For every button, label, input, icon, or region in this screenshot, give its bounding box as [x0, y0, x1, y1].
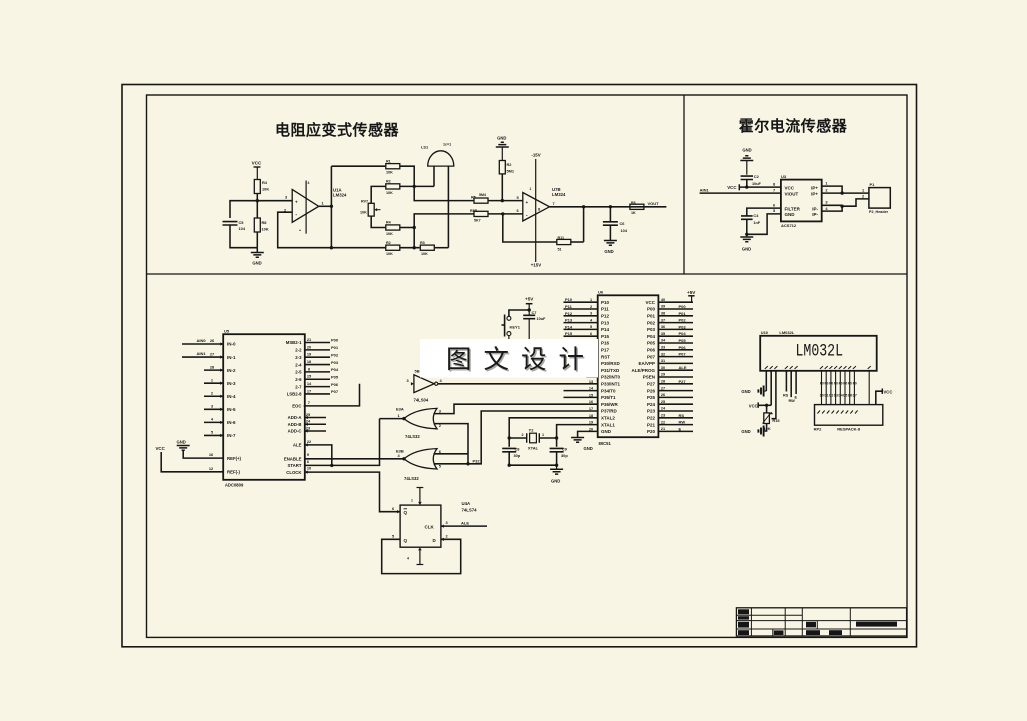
capacitor C6 — [603, 207, 628, 241]
op-amp U7B — [523, 159, 566, 262]
node hall in junction — [840, 205, 843, 208]
svg-text:+5V: +5V — [525, 297, 534, 302]
svg-text:2: 2 — [590, 305, 592, 309]
U4A clear arrow — [407, 547, 423, 564]
svg-text:R1: R1 — [386, 159, 391, 163]
wire C2 to node — [746, 180, 748, 188]
wire R5A to R3 — [400, 247, 420, 249]
U10 VSS pin wire — [765, 371, 767, 391]
svg-text:电阻应变式传感器: 电阻应变式传感器 — [275, 121, 400, 139]
svg-text:CLOCK: CLOCK — [286, 470, 302, 475]
svg-text:10: 10 — [307, 466, 311, 471]
resistor R2A — [386, 180, 400, 195]
U6 P1 port wires and labels — [564, 297, 598, 343]
node P32 junction — [466, 462, 469, 465]
node R11 junction — [501, 212, 504, 215]
title hall-current section — [739, 117, 848, 135]
svg-text:74LS32: 74LS32 — [405, 434, 420, 439]
svg-text:LSB2-8: LSB2-8 — [287, 392, 302, 397]
resistor R4 — [254, 180, 269, 194]
svg-text:P06: P06 — [331, 382, 339, 387]
svg-text:RST: RST — [601, 354, 610, 359]
svg-text:RW: RW — [679, 420, 686, 425]
wire inverter out to P33 — [438, 383, 598, 385]
svg-text:P02: P02 — [679, 318, 687, 323]
svg-text:ENABLE: ENABLE — [284, 457, 302, 462]
wire U3 pin4 — [822, 205, 842, 211]
svg-text:VCC: VCC — [252, 161, 262, 166]
ground mcu — [571, 438, 593, 452]
U4A CLK pin — [425, 520, 488, 530]
resistor R8 — [254, 201, 269, 248]
svg-text:1: 1 — [590, 298, 592, 302]
svg-text:IP-: IP- — [812, 206, 818, 211]
svg-text:D6: D6 — [848, 394, 852, 398]
svg-text:P34/T0: P34/T0 — [601, 388, 616, 393]
U6 pin name texts — [601, 300, 656, 434]
svg-text:P02: P02 — [331, 352, 339, 357]
power VCC adc — [156, 446, 224, 472]
svg-text:P0: P0 — [853, 381, 857, 385]
wire bottom to R5A — [331, 247, 385, 249]
svg-text:P24: P24 — [647, 402, 656, 407]
svg-text:LM032L: LM032L — [796, 342, 844, 362]
node B junction — [413, 185, 416, 188]
wire node to op-amp pin3 — [257, 195, 292, 201]
svg-text:25: 25 — [661, 400, 665, 404]
wire LS1 right leg — [447, 166, 449, 248]
net label ALE at CLK — [461, 521, 469, 526]
svg-text:D4: D4 — [839, 394, 843, 398]
svg-text:17: 17 — [589, 407, 593, 411]
wire C5 to gnd rail — [230, 225, 257, 248]
svg-text:E: E — [679, 426, 682, 431]
svg-text:39: 39 — [661, 305, 665, 309]
net label P27 mcu — [679, 379, 687, 384]
svg-text:31: 31 — [661, 359, 665, 363]
svg-text:6: 6 — [590, 332, 592, 336]
svg-text:P05: P05 — [647, 341, 656, 346]
net labels lcd data — [820, 381, 857, 397]
svg-text:P04: P04 — [647, 334, 656, 339]
svg-text:P20: P20 — [647, 429, 656, 434]
svg-text:IN-7: IN-7 — [227, 433, 236, 438]
U10 RW pin wire — [789, 371, 796, 403]
svg-text:GND: GND — [177, 439, 186, 444]
svg-text:IN-0: IN-0 — [227, 342, 236, 347]
power VCC lcd — [749, 402, 771, 408]
svg-text:VCC: VCC — [884, 390, 893, 395]
net label RS mcu — [679, 413, 685, 418]
border outer frame — [122, 85, 917, 647]
svg-text:10K: 10K — [386, 171, 393, 175]
capacitor C2 — [741, 174, 762, 186]
or-gate E3A 74LS32 — [396, 406, 442, 439]
node ALE-START junction — [330, 464, 333, 467]
svg-text:IN-6: IN-6 — [227, 420, 236, 425]
wire R2A-left to RV7 — [371, 186, 386, 203]
svg-text:VCC: VCC — [727, 185, 737, 190]
svg-text:P01: P01 — [647, 314, 656, 319]
ADC address pins ADD-A/B/C — [288, 412, 326, 434]
svg-text:P12: P12 — [601, 314, 610, 319]
svg-text:P00: P00 — [331, 338, 339, 343]
power +15V — [531, 263, 541, 268]
ground lcd r15 — [741, 426, 763, 437]
power +5V key — [525, 297, 534, 316]
wire P37 to gates — [468, 411, 598, 464]
svg-text:C4: C4 — [753, 213, 759, 218]
svg-text:P03: P03 — [679, 324, 687, 329]
svg-text:XTAL1: XTAL1 — [601, 422, 615, 427]
connector P1 — [862, 182, 890, 214]
svg-text:VCC: VCC — [749, 403, 758, 408]
ground above R2 — [496, 136, 509, 161]
svg-text:U4A: U4A — [462, 501, 471, 506]
wire top to R1 — [331, 165, 385, 167]
wire C4 to gnd node — [746, 219, 748, 234]
wire R2A to node B — [400, 185, 434, 187]
resistor R2 — [499, 161, 515, 174]
svg-text:C8: C8 — [515, 446, 521, 451]
title block — [736, 608, 906, 636]
svg-text:RESPACK-8: RESPACK-8 — [837, 427, 861, 432]
svg-text:2-4: 2-4 — [295, 362, 302, 367]
svg-text:20: 20 — [307, 344, 311, 349]
button KEY1 — [502, 315, 521, 340]
ground below R8 — [251, 248, 264, 266]
svg-text:2-2: 2-2 — [295, 348, 302, 353]
section divider vertical — [683, 95, 685, 274]
or-gate E3B 74LS32 — [396, 449, 442, 481]
node hall vcc junction — [745, 185, 748, 188]
svg-text:GND: GND — [601, 429, 612, 434]
svg-text:2-5: 2-5 — [295, 370, 302, 375]
svg-text:LS1: LS1 — [421, 145, 429, 150]
svg-text:C7: C7 — [532, 310, 537, 315]
chip U3 ACS712 — [781, 174, 822, 228]
wire lower bus — [414, 214, 474, 228]
svg-text:80C51: 80C51 — [599, 441, 612, 446]
svg-text:40: 40 — [661, 298, 665, 302]
svg-text:26: 26 — [661, 393, 665, 397]
svg-text:35: 35 — [661, 332, 665, 336]
wire filter to C4 — [747, 208, 781, 216]
svg-text:EA/VPP: EA/VPP — [638, 361, 655, 366]
wire op-amp U1A feedback — [278, 212, 332, 248]
ground below C6 — [604, 241, 617, 255]
svg-text:PSEN: PSEN — [643, 375, 655, 380]
svg-text:37: 37 — [661, 318, 665, 322]
svg-text:U3: U3 — [781, 174, 787, 179]
U6 P32 stub — [586, 376, 597, 378]
wire R3 to LS1 leg — [435, 247, 449, 249]
svg-text:R2: R2 — [386, 180, 391, 184]
ADC data pins 2-1..2-8 — [286, 337, 339, 397]
svg-text:P11: P11 — [601, 307, 609, 312]
wire crystal right — [539, 436, 558, 439]
svg-text:ADD-B: ADD-B — [288, 422, 302, 427]
svg-text:5B: 5B — [415, 369, 420, 374]
svg-text:29: 29 — [661, 373, 665, 377]
ground hall top — [740, 148, 753, 175]
node R2 junction — [501, 199, 504, 202]
wire output vertical — [330, 166, 332, 248]
svg-text:P07: P07 — [331, 389, 339, 394]
svg-text:LM324: LM324 — [552, 192, 566, 197]
wire R5 to pin5 — [488, 195, 523, 201]
U10 data pin wires D0-D7 — [822, 371, 870, 405]
node C junction — [413, 226, 416, 229]
resistor R5A — [386, 241, 400, 256]
svg-text:VCC: VCC — [785, 185, 795, 190]
svg-text:23: 23 — [661, 414, 665, 418]
node hall out junction — [840, 191, 843, 194]
svg-text:ADD-C: ADD-C — [288, 429, 302, 434]
svg-text:P05: P05 — [331, 374, 339, 379]
svg-text:E3A: E3A — [396, 406, 404, 411]
wire feedback R11 — [503, 207, 584, 242]
svg-text:2-7: 2-7 — [295, 384, 302, 389]
svg-text:P10: P10 — [601, 300, 610, 305]
svg-text:P32/INT0: P32/INT0 — [601, 375, 621, 380]
svg-text:ACS712: ACS712 — [781, 223, 797, 228]
svg-text:GND: GND — [741, 389, 750, 394]
svg-text:LM032L: LM032L — [779, 330, 794, 335]
svg-text:P0: P0 — [834, 381, 838, 385]
svg-text:22: 22 — [661, 420, 665, 424]
resistor R3 — [420, 241, 434, 256]
svg-text:P04: P04 — [331, 367, 339, 372]
section divider horizontal — [147, 273, 908, 275]
potentiometer RV7 — [360, 200, 381, 217]
svg-text:P06: P06 — [647, 348, 656, 353]
svg-text:R4: R4 — [262, 180, 268, 185]
svg-text:霍尔电流传感器: 霍尔电流传感器 — [739, 117, 848, 135]
node A junction — [256, 199, 259, 202]
svg-text:104: 104 — [239, 226, 246, 231]
wire vert to R5A — [413, 228, 415, 248]
svg-text:74LS04: 74LS04 — [414, 398, 429, 403]
svg-text:IP-: IP- — [812, 212, 818, 217]
svg-text:RS: RS — [783, 393, 789, 397]
svg-text:P1: P1 — [870, 182, 876, 187]
svg-text:ALE: ALE — [461, 521, 469, 526]
ADC input pins IN-0..IN-7 — [182, 338, 236, 438]
svg-text:ALE/PROG: ALE/PROG — [631, 368, 655, 373]
svg-text:10K: 10K — [262, 227, 269, 232]
wire R1 right bend — [400, 166, 414, 186]
svg-text:74LS32: 74LS32 — [404, 476, 419, 481]
net label AIN1 adc — [197, 351, 207, 356]
wire U3 pin3 — [822, 200, 842, 206]
svg-text:7: 7 — [773, 187, 775, 192]
svg-text:1: 1 — [530, 187, 532, 191]
svg-text:Q: Q — [404, 510, 408, 515]
svg-text:P25: P25 — [647, 395, 656, 400]
svg-text:R11: R11 — [558, 236, 565, 240]
svg-text:7: 7 — [308, 400, 310, 405]
svg-text:1: 1 — [542, 433, 544, 437]
svg-text:P01: P01 — [331, 345, 339, 350]
svg-text:图文设计: 图文设计 — [446, 346, 596, 374]
net label AIN0 — [197, 338, 207, 343]
svg-text:VCC: VCC — [645, 300, 655, 305]
svg-text:GND: GND — [742, 148, 751, 153]
svg-text:R6: R6 — [631, 201, 636, 205]
wire AIN1 to pin7 — [700, 192, 781, 194]
node out junction 1 — [582, 205, 585, 208]
wire step to P1 pin2 — [842, 199, 869, 206]
node out junction 2 — [609, 205, 612, 208]
svg-text:P27: P27 — [679, 379, 687, 384]
svg-text:P32: P32 — [473, 458, 481, 463]
svg-text:VOUT: VOUT — [648, 201, 660, 206]
ground crystal — [550, 465, 563, 483]
svg-text:P10: P10 — [565, 297, 573, 302]
svg-text:REF(+): REF(+) — [227, 456, 242, 461]
potentiometer R15 — [763, 405, 781, 431]
wire node B down to bus — [414, 186, 474, 200]
resistor pack RP2 box — [814, 405, 883, 432]
svg-text:GND: GND — [252, 261, 261, 266]
svg-text:Q: Q — [404, 538, 408, 543]
svg-text:5M1: 5M1 — [507, 169, 515, 174]
svg-text:Y2: Y2 — [529, 427, 535, 432]
capacitor C8 — [502, 438, 521, 465]
svg-text:3: 3 — [590, 312, 592, 316]
svg-text:ALE: ALE — [679, 365, 687, 370]
svg-text:KEY1: KEY1 — [510, 324, 521, 329]
wire R2 to bus — [501, 174, 503, 201]
svg-text:10K: 10K — [386, 252, 393, 256]
svg-text:P12: P12 — [565, 311, 573, 316]
svg-text:P03: P03 — [647, 327, 656, 332]
svg-text:IP+: IP+ — [811, 185, 818, 190]
U10 RS pin wire — [783, 371, 789, 398]
svg-text:REF(-): REF(-) — [227, 470, 240, 475]
ADC ALE pin — [293, 439, 332, 466]
svg-text:CLK: CLK — [425, 525, 435, 530]
net label ALE mcu — [679, 365, 687, 370]
capacitor C5 — [223, 220, 246, 231]
svg-text:P13: P13 — [565, 318, 573, 323]
svg-text:XTAL2: XTAL2 — [601, 416, 615, 421]
svg-text:GND: GND — [604, 249, 613, 254]
ground hall bottom — [740, 234, 753, 251]
svg-text:P0: P0 — [839, 381, 843, 385]
svg-text:R8: R8 — [262, 220, 268, 225]
svg-text:P0: P0 — [825, 381, 829, 385]
node lcd vcc junction — [765, 404, 768, 407]
svg-text:10K: 10K — [421, 252, 428, 256]
svg-text:51: 51 — [558, 248, 562, 252]
net labels P00-P07 mcu — [679, 304, 687, 357]
U6 P35 stub wire — [564, 396, 598, 398]
svg-text:U5: U5 — [224, 328, 230, 333]
net label AIN1 — [700, 187, 710, 192]
svg-text:4: 4 — [407, 557, 409, 561]
ADC CLOCK pin — [286, 466, 400, 512]
svg-text:P30/RXD: P30/RXD — [601, 361, 621, 366]
svg-text:P23: P23 — [647, 409, 656, 414]
svg-text:D3: D3 — [834, 394, 838, 398]
svg-text:5M4: 5M4 — [479, 193, 486, 197]
svg-text:LM324: LM324 — [333, 193, 347, 198]
svg-text:MSB2-1: MSB2-1 — [286, 340, 302, 345]
net label VOUT — [648, 201, 660, 206]
wire XTAL2 — [509, 418, 598, 438]
svg-text:P36/WR: P36/WR — [601, 402, 619, 407]
svg-text:VCC: VCC — [156, 446, 166, 451]
ADC START pin — [287, 419, 379, 469]
svg-text:4: 4 — [308, 181, 310, 185]
svg-text:RV7: RV7 — [361, 200, 368, 204]
svg-text:D2: D2 — [829, 394, 833, 398]
wire U3 pin1 — [822, 180, 842, 193]
svg-text:RP2: RP2 — [814, 427, 823, 432]
svg-text:C2: C2 — [754, 174, 760, 179]
svg-text:-: - — [526, 213, 528, 219]
net label P32 — [473, 458, 481, 463]
svg-text:P06: P06 — [679, 345, 687, 350]
net label E mcu — [679, 426, 682, 431]
svg-text:10uF: 10uF — [752, 182, 762, 186]
svg-text:ADD-A: ADD-A — [288, 415, 302, 420]
svg-text:27: 27 — [661, 386, 665, 390]
wire R4A to vert — [400, 227, 414, 229]
svg-text:C6: C6 — [620, 221, 626, 226]
pin number 5 — [773, 208, 776, 213]
svg-text:IN-3: IN-3 — [227, 381, 236, 386]
op-amp U1A — [284, 181, 347, 234]
svg-text:10K: 10K — [386, 232, 393, 236]
resistor R6 — [630, 201, 644, 215]
svg-text:START: START — [287, 463, 301, 468]
svg-text:P27: P27 — [647, 382, 656, 387]
ADC EOC pin — [292, 384, 359, 409]
svg-text:P14: P14 — [601, 327, 610, 332]
svg-text:D1: D1 — [824, 394, 828, 398]
U6 left pin numbers 12-20 — [589, 373, 594, 431]
svg-text:P15: P15 — [565, 331, 573, 336]
svg-text:IN-5: IN-5 — [227, 407, 236, 412]
svg-text:2-3: 2-3 — [295, 355, 302, 360]
U6 right pin wires and numbers — [658, 298, 693, 432]
svg-text:+: + — [295, 200, 298, 205]
svg-text:+15V: +15V — [531, 263, 541, 268]
ground adc ref — [177, 439, 224, 458]
svg-text:27: 27 — [210, 351, 214, 356]
wire node to C5 — [230, 201, 257, 218]
U10 VEE pin wire — [772, 371, 776, 419]
power -15V — [531, 153, 540, 158]
chip U6 89C51 box — [598, 290, 659, 446]
wire E3A input3 to P36 — [434, 404, 598, 413]
wire E3B input5 — [434, 463, 469, 465]
wire E3B input6 — [434, 453, 469, 455]
svg-text:IN-2: IN-2 — [227, 368, 236, 373]
svg-text:P15: P15 — [601, 334, 610, 339]
power VCC — [252, 161, 262, 180]
U10 E pin wire — [795, 371, 798, 400]
border inner frame — [147, 95, 908, 637]
pin number 6 — [773, 202, 776, 207]
chip U5 ADC0809 box — [223, 328, 305, 487]
svg-text:P14: P14 — [565, 324, 573, 329]
ground lcd vss — [741, 386, 766, 397]
flip-flop U4A 74LS74 box — [400, 501, 477, 547]
